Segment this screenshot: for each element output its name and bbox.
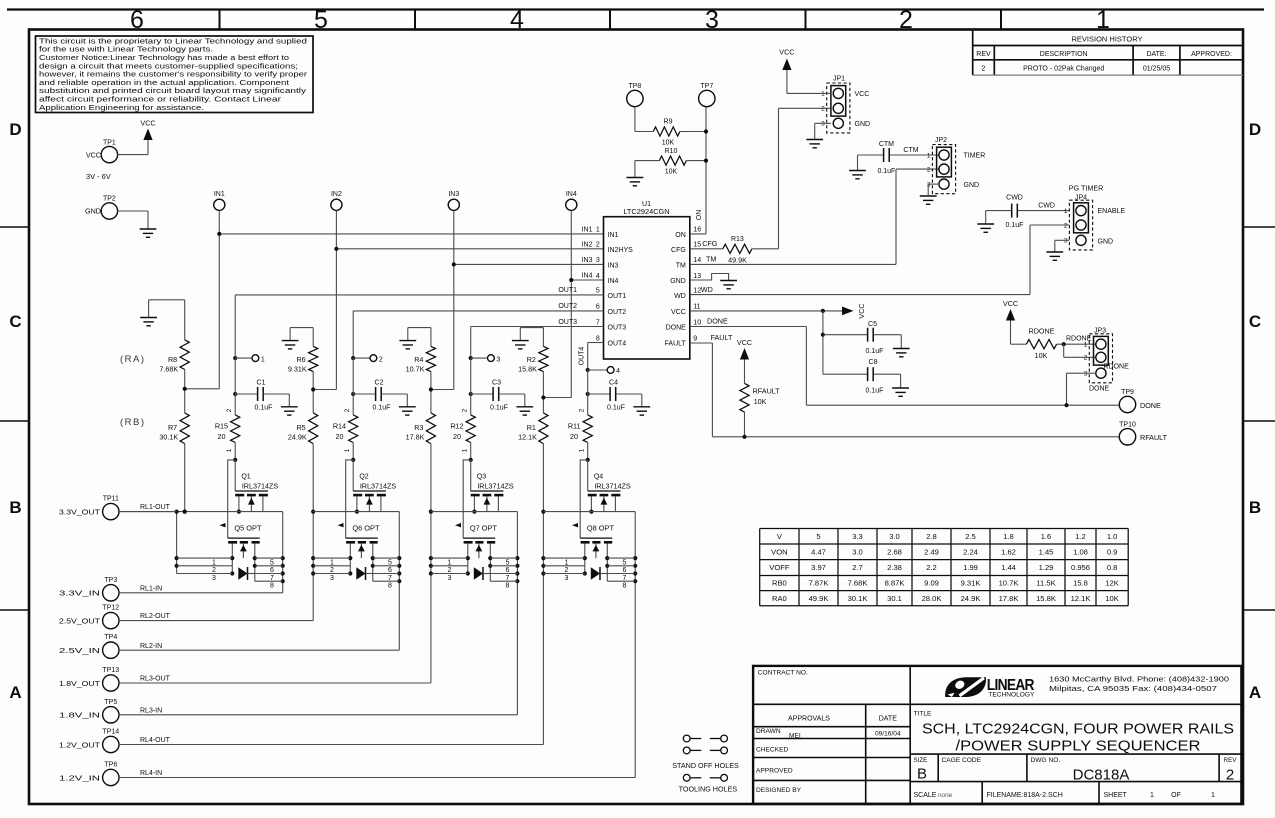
svg-text:A: A xyxy=(9,683,21,702)
wire IN1 vertical xyxy=(185,210,220,388)
IC U1 LTC2924CGN power supply sequencer xyxy=(582,201,702,359)
wire DONE net xyxy=(690,317,1120,406)
svg-text:1: 1 xyxy=(1150,792,1154,799)
svg-text:3.0: 3.0 xyxy=(852,547,863,556)
svg-text:0.1uF: 0.1uF xyxy=(607,404,625,411)
svg-text:0.1uF: 0.1uF xyxy=(490,404,508,411)
svg-text:R8: R8 xyxy=(168,355,177,364)
wire divider 3 ground stub xyxy=(408,328,431,347)
transistor Q6 OPT (optional) xyxy=(338,523,380,581)
svg-text:C5: C5 xyxy=(868,321,877,328)
wire divider 2 bottom xyxy=(311,444,315,621)
svg-text:6: 6 xyxy=(506,567,510,574)
jumper JP4 xyxy=(1064,184,1126,250)
svg-text:OUT1: OUT1 xyxy=(608,293,627,300)
svg-text:OUT3: OUT3 xyxy=(608,325,627,332)
capacitor C1 0.1uF xyxy=(233,358,289,415)
svg-text:PROTO - 02Pak Changed: PROTO - 02Pak Changed xyxy=(1023,66,1104,73)
svg-text:1.62: 1.62 xyxy=(1001,547,1016,556)
svg-text:RFAULT: RFAULT xyxy=(753,387,781,396)
svg-text:RL4-OUT: RL4-OUT xyxy=(140,737,171,744)
svg-text:9.09: 9.09 xyxy=(924,579,939,588)
wire RL3-OUT xyxy=(119,676,431,683)
ground (divider 1) xyxy=(140,318,157,326)
test point TP10 xyxy=(1119,421,1167,445)
wire VCC to C5 C8 xyxy=(821,311,867,374)
wire JP4 pin3 to ground xyxy=(1055,240,1070,252)
svg-text:1: 1 xyxy=(344,448,351,452)
svg-text:DESCRIPTION: DESCRIPTION xyxy=(1040,51,1088,58)
svg-text:IRL3714ZS: IRL3714ZS xyxy=(594,482,631,491)
svg-text:IRL3714ZS: IRL3714ZS xyxy=(242,482,279,491)
svg-text:8: 8 xyxy=(270,583,274,590)
svg-text:2: 2 xyxy=(1084,355,1088,362)
svg-text:3.3V_IN: 3.3V_IN xyxy=(59,589,100,598)
svg-text:3: 3 xyxy=(496,356,500,363)
wire OUT3 net xyxy=(471,319,604,358)
svg-text:and reliable operation in the: and reliable operation in the actual app… xyxy=(39,80,289,87)
capacitor C2 0.1uF xyxy=(351,358,407,415)
svg-text:STAND OFF HOLES: STAND OFF HOLES xyxy=(672,761,739,770)
svg-text:4.47: 4.47 xyxy=(811,547,826,556)
svg-text:7: 7 xyxy=(388,575,392,582)
svg-text:10K: 10K xyxy=(662,139,675,146)
svg-text:TP9: TP9 xyxy=(1121,389,1134,396)
svg-text:5: 5 xyxy=(270,559,274,566)
svg-text:GND: GND xyxy=(855,121,871,128)
svg-text:IRL3714ZS: IRL3714ZS xyxy=(360,482,397,491)
svg-text:SCALE: SCALE xyxy=(914,792,937,799)
svg-text:28.0K: 28.0K xyxy=(922,594,942,603)
svg-text:affect circuit performance or: affect circuit performance or reliabilit… xyxy=(39,97,282,104)
ground (C5) xyxy=(893,349,910,357)
wire source rail ch1 xyxy=(119,511,263,513)
svg-text:1: 1 xyxy=(579,448,586,452)
capacitor C5 0.1uF xyxy=(866,321,902,355)
svg-text:C4: C4 xyxy=(609,380,618,387)
svg-text:JP1: JP1 xyxy=(833,76,845,83)
svg-text:0.1uF: 0.1uF xyxy=(866,348,884,355)
svg-text:TP4: TP4 xyxy=(104,634,117,641)
svg-text:1: 1 xyxy=(821,91,825,98)
wire divider 2 ground stub xyxy=(290,328,313,347)
svg-text:VCC: VCC xyxy=(86,150,101,159)
wire divider 4 bottom xyxy=(541,444,545,745)
wire gate net ch3 xyxy=(463,460,471,538)
svg-text:0.1uF: 0.1uF xyxy=(255,404,273,411)
svg-text:TM: TM xyxy=(676,262,686,269)
svg-text:IN2HYS: IN2HYS xyxy=(608,247,634,254)
svg-text:R12: R12 xyxy=(450,422,463,431)
svg-text:1: 1 xyxy=(565,560,569,567)
resistor R6 9.31K xyxy=(288,346,318,373)
svg-text:2.8: 2.8 xyxy=(926,532,937,541)
svg-text:IN3: IN3 xyxy=(582,257,593,264)
svg-text:3: 3 xyxy=(330,575,334,582)
proprietary notice box xyxy=(36,36,314,113)
svg-text:R6: R6 xyxy=(296,355,305,364)
svg-text:substitution and printed circu: substitution and printed circuit board l… xyxy=(39,88,307,95)
wire package pins 5-8 ch2 xyxy=(373,558,400,589)
svg-text:R9: R9 xyxy=(664,119,673,126)
svg-text:10K: 10K xyxy=(1105,594,1119,603)
svg-text:14: 14 xyxy=(693,257,701,264)
svg-text:DESIGNED BY: DESIGNED BY xyxy=(756,787,802,794)
node OUT1 turret 1 xyxy=(233,355,265,364)
svg-text:JP3: JP3 xyxy=(1094,327,1106,334)
svg-text:R13: R13 xyxy=(731,236,744,243)
svg-text:2: 2 xyxy=(565,567,569,574)
svg-text:DONE: DONE xyxy=(666,325,687,332)
svg-text:R5: R5 xyxy=(296,423,305,432)
svg-text:APPROVALS: APPROVALS xyxy=(788,716,830,723)
svg-text:IN3: IN3 xyxy=(448,191,459,198)
svg-text:R2: R2 xyxy=(527,355,536,364)
svg-text:2: 2 xyxy=(1064,222,1068,229)
svg-text:2.38: 2.38 xyxy=(887,563,902,572)
svg-text:GND: GND xyxy=(964,182,980,189)
test point TP12 xyxy=(59,605,119,629)
test point TP3 xyxy=(59,577,119,601)
svg-text:1630 McCarthy Blvd. Phone: (4: 1630 McCarthy Blvd. Phone: (408)432-1900 xyxy=(1049,675,1229,684)
wire divider 1 ground stub xyxy=(149,300,185,340)
svg-text:30.1K: 30.1K xyxy=(848,594,868,603)
svg-text:IN1: IN1 xyxy=(214,191,225,198)
svg-text:CFG: CFG xyxy=(671,247,686,254)
ground (C4) xyxy=(633,407,650,415)
svg-text:FAULT: FAULT xyxy=(711,333,733,342)
VCC arrow (RDONE) xyxy=(1003,299,1018,321)
svg-text:8: 8 xyxy=(596,335,600,342)
svg-text:(RA): (RA) xyxy=(120,354,146,365)
wire CFG net xyxy=(690,239,723,249)
ground (JP1) xyxy=(806,140,823,148)
svg-text:Q7 OPT: Q7 OPT xyxy=(470,523,498,532)
svg-text:OUT1: OUT1 xyxy=(558,287,577,294)
ground (C3) xyxy=(516,407,533,415)
svg-text:R3: R3 xyxy=(414,423,423,432)
resistor R7 30.1K xyxy=(159,413,189,444)
wire RL1-OUT xyxy=(119,504,187,514)
svg-text:7: 7 xyxy=(270,575,274,582)
svg-text:0.1uF: 0.1uF xyxy=(866,387,884,394)
svg-text:2: 2 xyxy=(379,356,383,363)
svg-text:IN2: IN2 xyxy=(582,241,593,248)
svg-text:3.0: 3.0 xyxy=(889,532,900,541)
svg-text:TP10: TP10 xyxy=(1119,421,1136,428)
svg-text:C1: C1 xyxy=(257,380,266,387)
diode ch2 xyxy=(356,567,373,580)
svg-text:ON: ON xyxy=(696,210,703,221)
svg-text:SHEET: SHEET xyxy=(1104,792,1128,799)
svg-text:5: 5 xyxy=(816,532,820,541)
svg-text:0.1uF: 0.1uF xyxy=(1006,222,1024,229)
test point TP2 xyxy=(85,196,118,220)
svg-text:2.68: 2.68 xyxy=(887,547,902,556)
resistor selection table xyxy=(760,529,1128,606)
svg-text:15.8K: 15.8K xyxy=(518,365,537,374)
svg-text:2: 2 xyxy=(1226,767,1234,784)
wire divider 4 ground stub xyxy=(520,328,543,347)
svg-text:MEI: MEI xyxy=(789,733,801,740)
svg-text:10K: 10K xyxy=(1035,351,1048,360)
VCC arrow (TP1) xyxy=(140,119,155,141)
stand off holes xyxy=(672,735,739,770)
resistor RFAULT 10K xyxy=(740,360,780,439)
svg-text:1.99: 1.99 xyxy=(963,563,978,572)
wire RL4-IN xyxy=(119,770,635,777)
title block xyxy=(753,666,1241,804)
svg-text:8.87K: 8.87K xyxy=(885,579,905,588)
svg-text:01/25/05: 01/25/05 xyxy=(1143,66,1170,73)
svg-text:A: A xyxy=(1249,683,1261,702)
resistor R4 10.7K xyxy=(406,346,436,373)
test point TP6 xyxy=(59,762,119,786)
svg-text:VCC: VCC xyxy=(1003,299,1018,308)
svg-text:R11: R11 xyxy=(568,422,581,431)
wire OUT1 net xyxy=(235,287,603,358)
wire divider 2 middle xyxy=(311,372,315,413)
svg-text:12.1K: 12.1K xyxy=(1071,594,1091,603)
svg-text:GND: GND xyxy=(1098,238,1114,245)
svg-text:Customer Notice:Linear Technol: Customer Notice:Linear Technology has ma… xyxy=(39,55,289,62)
ground (C1) xyxy=(281,407,298,415)
revision history table xyxy=(973,30,1243,76)
svg-text:30.1: 30.1 xyxy=(887,594,902,603)
wire IN4 to U1 pin 4 xyxy=(569,278,603,282)
svg-text:OUT2: OUT2 xyxy=(608,309,627,316)
svg-text:GND: GND xyxy=(670,278,686,285)
svg-text:5: 5 xyxy=(388,559,392,566)
svg-text:2.5: 2.5 xyxy=(965,532,976,541)
wire ON net xyxy=(690,107,706,234)
ground (C2) xyxy=(399,407,416,415)
svg-text:DWG NO.: DWG NO. xyxy=(1031,757,1061,764)
wire package pins 1-3 ch4 xyxy=(543,558,584,582)
svg-text:C: C xyxy=(9,312,21,331)
svg-text:7: 7 xyxy=(623,575,627,582)
wire RL2-OUT xyxy=(119,613,313,620)
Linear Technology logo xyxy=(945,675,1229,699)
svg-text:3: 3 xyxy=(705,6,719,34)
test point TP9 xyxy=(1119,389,1161,413)
svg-text:11: 11 xyxy=(693,304,700,311)
svg-text:C: C xyxy=(1249,312,1261,331)
transistor Q5 OPT (optional) xyxy=(220,523,262,581)
svg-text:17.8K: 17.8K xyxy=(406,433,425,442)
resistor RDONE 10K xyxy=(1011,321,1096,360)
resistor R13 49.9K xyxy=(723,236,752,265)
svg-text:3V - 6V: 3V - 6V xyxy=(86,172,111,181)
wire package pins 1-3 ch1 xyxy=(175,510,233,582)
svg-text:15.8K: 15.8K xyxy=(1036,594,1056,603)
svg-text:3.3V_OUT: 3.3V_OUT xyxy=(59,507,101,516)
svg-text:4: 4 xyxy=(616,368,620,375)
svg-text:FILENAME:818A-2.SCH: FILENAME:818A-2.SCH xyxy=(987,792,1063,799)
svg-text:4: 4 xyxy=(596,273,600,280)
svg-text:CFG: CFG xyxy=(702,239,718,248)
ground (U1 pin13) xyxy=(720,281,737,289)
svg-text:CWD: CWD xyxy=(1006,195,1023,202)
svg-text:DATE: DATE xyxy=(879,716,897,723)
svg-text:7.68K: 7.68K xyxy=(159,365,178,374)
wire JP1 pin3 to ground xyxy=(815,123,831,139)
svg-text:DRAWN: DRAWN xyxy=(756,728,781,735)
svg-text:DONE: DONE xyxy=(707,317,728,326)
wire package pins 5-8 ch1 xyxy=(255,558,283,589)
svg-text:6: 6 xyxy=(596,304,600,311)
svg-text:OUT3: OUT3 xyxy=(558,319,577,326)
resistor R3 17.8K xyxy=(406,413,436,444)
svg-text:Q1: Q1 xyxy=(241,474,250,481)
svg-text:Milpitas, CA 95035 Fax: (408): Milpitas, CA 95035 Fax: (408)434-0507 xyxy=(1049,684,1217,693)
svg-text:49.9K: 49.9K xyxy=(809,594,829,603)
svg-text:1.2V_OUT: 1.2V_OUT xyxy=(59,740,101,749)
node IN4 xyxy=(566,191,577,210)
svg-text:TP3: TP3 xyxy=(104,577,117,584)
ground (CTM) xyxy=(849,171,866,179)
svg-text:TP5: TP5 xyxy=(104,699,117,706)
resistor R11 20 xyxy=(568,408,592,462)
svg-text:2.49: 2.49 xyxy=(924,547,939,556)
svg-text:4: 4 xyxy=(510,6,524,34)
resistor R9 10K xyxy=(635,107,708,147)
wire RL1-IN xyxy=(119,585,283,592)
svg-text:This circuit is the proprietar: This circuit is the proprietary to Linea… xyxy=(39,38,307,45)
svg-text:WD: WD xyxy=(701,285,713,294)
svg-text:5: 5 xyxy=(314,6,328,34)
svg-text:1: 1 xyxy=(261,356,265,363)
resistor R10 10K xyxy=(635,148,708,177)
zone letters xyxy=(9,120,1261,702)
svg-text:D: D xyxy=(9,120,21,139)
svg-text:2: 2 xyxy=(448,567,452,574)
transistor Q3 IRL3714ZS xyxy=(471,474,514,514)
svg-text:30.1K: 30.1K xyxy=(159,433,178,442)
svg-text:CONTRACT NO.: CONTRACT NO. xyxy=(758,670,808,677)
svg-text:13: 13 xyxy=(693,273,701,280)
svg-text:VOFF: VOFF xyxy=(769,563,790,572)
svg-text:RDONE: RDONE xyxy=(1104,364,1130,371)
svg-text:0.1uF: 0.1uF xyxy=(373,404,391,411)
svg-text:REV: REV xyxy=(1224,757,1238,764)
svg-text:Q6 OPT: Q6 OPT xyxy=(352,523,380,532)
node IN1 xyxy=(214,191,225,210)
svg-text:C3: C3 xyxy=(492,380,501,387)
svg-text:3: 3 xyxy=(565,575,569,582)
svg-text:SIZE: SIZE xyxy=(914,757,928,764)
svg-text:10: 10 xyxy=(693,319,701,326)
svg-text:2.5V_OUT: 2.5V_OUT xyxy=(59,616,101,625)
wire source rail ch3 xyxy=(431,511,499,513)
svg-text:however, it remains the custom: however, it remains the customer's respo… xyxy=(39,72,308,79)
wire gate net ch2 xyxy=(346,460,354,538)
svg-text:Q4: Q4 xyxy=(594,474,603,481)
svg-text:3: 3 xyxy=(448,575,452,582)
svg-text:Q8 OPT: Q8 OPT xyxy=(587,523,615,532)
svg-text:design a circuit that meets cu: design a circuit that meets customer-sup… xyxy=(39,63,298,70)
wire package pins 1-3 ch2 xyxy=(313,558,350,582)
svg-text:TP14: TP14 xyxy=(102,729,119,736)
svg-text:6: 6 xyxy=(130,6,144,34)
svg-text:1: 1 xyxy=(330,560,334,567)
wire WD net xyxy=(690,225,1070,295)
svg-text:24.9K: 24.9K xyxy=(961,594,981,603)
svg-text:Q2: Q2 xyxy=(359,474,368,481)
svg-text:VON: VON xyxy=(771,547,787,556)
svg-text:CWD: CWD xyxy=(1038,203,1055,210)
svg-text:R10: R10 xyxy=(665,148,678,155)
svg-text:20: 20 xyxy=(218,432,226,441)
test point TP11 xyxy=(59,496,119,520)
wire IN3 to U1 pin 3 xyxy=(452,262,604,266)
diode ch4 xyxy=(591,567,608,580)
svg-text:2: 2 xyxy=(899,6,913,34)
svg-text:Q3: Q3 xyxy=(477,474,486,481)
wire divider 1 bottom xyxy=(183,444,187,514)
svg-text:1: 1 xyxy=(1084,342,1088,349)
wire package pins 5-8 ch4 xyxy=(607,558,635,589)
svg-text:OF: OF xyxy=(1171,792,1181,799)
svg-text:REV: REV xyxy=(976,51,991,58)
svg-text:CHECKED: CHECKED xyxy=(756,747,788,754)
wire JP2 pin3 to ground xyxy=(928,184,939,196)
svg-text:1: 1 xyxy=(226,448,233,452)
diode ch3 xyxy=(474,567,491,580)
svg-text:R14: R14 xyxy=(333,422,346,431)
wire GND pin13 xyxy=(690,274,729,281)
wire gate net ch1 xyxy=(228,460,236,538)
transistor Q7 OPT (optional) xyxy=(455,523,497,581)
wire OUT2 net xyxy=(353,303,603,358)
svg-text:3.97: 3.97 xyxy=(811,563,826,572)
svg-text:TP13: TP13 xyxy=(102,667,119,674)
svg-text:DATE:: DATE: xyxy=(1146,51,1166,58)
wire VCC net (pin11) xyxy=(690,309,842,313)
wire IN4 vertical xyxy=(543,210,571,397)
svg-text:REVISION HISTORY: REVISION HISTORY xyxy=(1072,35,1143,44)
svg-text:IN4: IN4 xyxy=(566,191,577,198)
wire package pins 5-8 ch3 xyxy=(490,558,517,589)
ground (divider 4) xyxy=(512,341,529,349)
jumper JP1 xyxy=(821,76,870,133)
node IN2 xyxy=(331,191,342,210)
svg-text:RL2-OUT: RL2-OUT xyxy=(140,613,171,620)
svg-text:RL3-IN: RL3-IN xyxy=(140,707,162,714)
wire divider 3 bottom xyxy=(429,444,433,683)
svg-text:2: 2 xyxy=(821,106,825,113)
svg-text:3: 3 xyxy=(212,575,216,582)
wire TP1 to VCC xyxy=(118,154,148,156)
svg-text:IN1: IN1 xyxy=(608,232,619,239)
wire IN1 to U1 pin 1 xyxy=(217,232,603,236)
svg-text:RA0: RA0 xyxy=(772,594,787,603)
svg-text:R15: R15 xyxy=(215,422,228,431)
svg-text:FAULT: FAULT xyxy=(665,341,687,348)
svg-text:/POWER SUPPLY SEQUENCER: /POWER SUPPLY SEQUENCER xyxy=(956,739,1201,755)
wire divider 3 middle xyxy=(429,372,433,413)
svg-text:9: 9 xyxy=(693,335,697,342)
svg-text:1.6: 1.6 xyxy=(1041,532,1052,541)
wire divider 4 middle xyxy=(541,372,545,413)
ground (C8) xyxy=(892,388,909,396)
svg-text:Application Engineering for as: Application Engineering for assistance. xyxy=(39,105,204,112)
ground (R10) xyxy=(627,178,644,186)
zone numbers xyxy=(130,6,1110,34)
svg-text:TP12: TP12 xyxy=(102,605,119,612)
svg-text:2.7: 2.7 xyxy=(852,563,863,572)
svg-text:OUT4: OUT4 xyxy=(608,341,627,348)
